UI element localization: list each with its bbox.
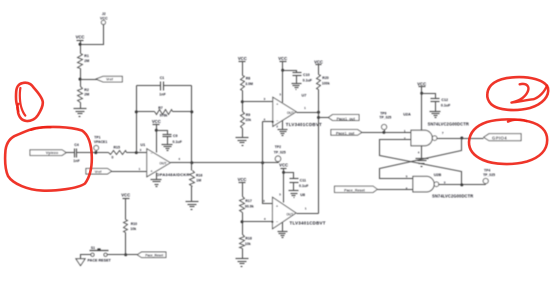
wire U7 output bbox=[297, 112, 319, 114]
svg-text:C9: C9 bbox=[173, 134, 178, 138]
svg-text:7: 7 bbox=[442, 131, 444, 135]
ground (C12) bbox=[430, 111, 441, 113]
wire signal to comparator inputs bbox=[263, 122, 273, 204]
feedback right leg bbox=[191, 86, 193, 163]
wire R9 to ground bbox=[242, 129, 244, 138]
svg-text:4: 4 bbox=[418, 150, 420, 154]
svg-text:2M: 2M bbox=[84, 92, 89, 96]
svg-text:1nF: 1nF bbox=[73, 159, 80, 163]
svg-text:R1: R1 bbox=[84, 54, 89, 58]
svg-text:Pace1_out: Pace1_out bbox=[337, 117, 356, 121]
svg-text:3: 3 bbox=[140, 148, 142, 152]
svg-text:U2B: U2B bbox=[434, 173, 442, 177]
chassis ground (switch) bbox=[76, 259, 85, 266]
svg-text:R2: R2 bbox=[84, 88, 89, 92]
svg-text:3: 3 bbox=[444, 180, 446, 184]
svg-text:VCC: VCC bbox=[314, 59, 323, 64]
svg-text:VCC: VCC bbox=[238, 56, 247, 61]
capacitor C4 1nF bbox=[74, 149, 76, 158]
svg-text:−: − bbox=[150, 152, 152, 156]
wire R8 to R9 bbox=[242, 91, 244, 112]
svg-text:R18: R18 bbox=[245, 237, 251, 241]
svg-text:−: − bbox=[276, 119, 278, 123]
net flag Pace1_out (output) bbox=[319, 117, 329, 119]
svg-text:TLV3401CDBVT: TLV3401CDBVT bbox=[286, 122, 322, 127]
wire R10 to reset node bbox=[125, 233, 127, 255]
svg-text:1: 1 bbox=[305, 206, 307, 210]
svg-text:0.1uF: 0.1uF bbox=[441, 103, 451, 107]
net flag Vref to U1 +input bbox=[86, 168, 112, 174]
svg-text:TP_025: TP_025 bbox=[274, 150, 286, 154]
svg-text:OUT: OUT bbox=[287, 111, 294, 115]
svg-text:TP4: TP4 bbox=[484, 168, 490, 172]
feedback network left leg bbox=[136, 86, 138, 153]
svg-text:0.1uF: 0.1uF bbox=[303, 78, 313, 82]
resistor R2 2M bbox=[78, 87, 83, 103]
ground (C10) bbox=[292, 83, 302, 85]
wire R1 to R2 bbox=[80, 69, 82, 87]
ground (C9) bbox=[162, 144, 173, 146]
ground (U2) bbox=[416, 158, 429, 160]
resistor R18 10k bbox=[240, 235, 245, 249]
svg-text:U2A: U2A bbox=[403, 113, 411, 117]
wire U2B output to TP4 bbox=[439, 184, 486, 186]
svg-text:1: 1 bbox=[304, 106, 306, 110]
wire divider to U7 +input bbox=[243, 101, 273, 103]
svg-text:0.1uF: 0.1uF bbox=[299, 184, 309, 188]
svg-text:SN74LVC2G00DCTR: SN74LVC2G00DCTR bbox=[428, 122, 469, 127]
node junction VCC/J2 bbox=[79, 43, 82, 46]
svg-text:0.1uF: 0.1uF bbox=[173, 140, 183, 144]
U2 ground stub bbox=[421, 146, 423, 159]
svg-text:VCC: VCC bbox=[76, 34, 85, 39]
net flag Pace_Reset (from switch) bbox=[137, 252, 166, 258]
svg-text:4: 4 bbox=[264, 217, 266, 221]
svg-text:2: 2 bbox=[276, 124, 278, 128]
svg-text:Vpiezo: Vpiezo bbox=[46, 150, 59, 155]
svg-text:TP_025: TP_025 bbox=[483, 173, 495, 177]
wire R18 to ground bbox=[242, 249, 244, 259]
wire R15 to U1 inverting input bbox=[127, 152, 147, 154]
latch feedback U2B out to U2A in2 bbox=[380, 140, 462, 185]
wire R20 to output node, wired-OR vertical bbox=[318, 90, 320, 214]
red annotation big circle (around Vpiezo) bbox=[5, 127, 92, 191]
svg-text:1: 1 bbox=[139, 167, 141, 171]
svg-text:VCC: VCC bbox=[279, 163, 288, 168]
svg-text:GPIO4: GPIO4 bbox=[492, 136, 507, 141]
node Vref divider tap bbox=[79, 78, 82, 81]
capacitor C11 0.1uF bypass bbox=[284, 173, 294, 179]
svg-text:90.9k: 90.9k bbox=[245, 204, 254, 208]
U8 V- ground bbox=[282, 223, 284, 232]
resistor R1 2M bbox=[78, 54, 83, 69]
svg-text:R20: R20 bbox=[322, 76, 328, 80]
svg-text:R8: R8 bbox=[246, 77, 251, 81]
svg-text:5: 5 bbox=[279, 192, 281, 196]
svg-text:SN74LVC2G00DCTR: SN74LVC2G00DCTR bbox=[432, 194, 473, 199]
latch feedback U2A out to U2B in5 bbox=[380, 139, 462, 179]
capacitor C10 0.1uF bypass bbox=[283, 71, 297, 73]
svg-text:2M: 2M bbox=[84, 59, 89, 63]
svg-text:VCC: VCC bbox=[152, 119, 161, 124]
svg-text:10k: 10k bbox=[130, 227, 136, 231]
svg-text:4: 4 bbox=[178, 157, 180, 161]
svg-text:OUT: OUT bbox=[286, 212, 293, 216]
resistor R16 1M load bbox=[191, 163, 193, 171]
ground (R16) bbox=[186, 201, 199, 203]
svg-text:R7: R7 bbox=[158, 106, 163, 110]
svg-text:PACE RESET: PACE RESET bbox=[88, 259, 112, 263]
svg-text:+: + bbox=[276, 102, 278, 106]
net flag Vref (divider output) bbox=[96, 76, 122, 82]
svg-text:U1: U1 bbox=[140, 143, 145, 147]
svg-text:Pace1_out: Pace1_out bbox=[336, 132, 355, 136]
net flag Pace1_out (to latch) bbox=[331, 130, 362, 136]
wire divider to U8 -input bbox=[243, 221, 273, 223]
svg-text:TP_025: TP_025 bbox=[379, 115, 391, 119]
red annotation oval with handwritten 2 (top-right) bbox=[487, 77, 548, 110]
U1 V- to ground bbox=[156, 173, 158, 180]
net flag Pace_Reset (to latch) bbox=[335, 186, 378, 192]
svg-text:U8: U8 bbox=[300, 193, 305, 197]
svg-text:U7: U7 bbox=[302, 93, 307, 97]
svg-text:VCC: VCC bbox=[238, 177, 247, 182]
capacitor C9 0.1uF bypass bbox=[157, 131, 168, 135]
svg-text:3: 3 bbox=[264, 97, 266, 101]
svg-text:+: + bbox=[276, 204, 278, 208]
svg-text:10k: 10k bbox=[245, 242, 251, 246]
wire Pace_Reset to U2B pin6 bbox=[378, 189, 413, 191]
wire switch left to chassis ground bbox=[81, 255, 91, 259]
U7 V- ground bbox=[282, 121, 284, 130]
svg-text:VPACE1: VPACE1 bbox=[94, 140, 107, 144]
svg-text:VCC: VCC bbox=[278, 56, 287, 61]
wire R17 to R18 bbox=[242, 213, 244, 235]
ground (R18) bbox=[236, 258, 249, 260]
svg-text:100k: 100k bbox=[322, 82, 330, 86]
svg-text:1M: 1M bbox=[196, 179, 201, 183]
svg-text:1nF: 1nF bbox=[159, 93, 166, 97]
ground (C11) bbox=[289, 190, 299, 192]
wire Vref to +input bbox=[112, 171, 147, 173]
capacitor C1 1nF bbox=[160, 82, 162, 91]
svg-text:R16: R16 bbox=[196, 173, 202, 177]
svg-text:C11: C11 bbox=[300, 179, 306, 183]
svg-text:C12: C12 bbox=[441, 98, 448, 102]
wire U1 output bbox=[171, 162, 279, 164]
resistor R10 10k bbox=[124, 220, 128, 233]
svg-text:J2: J2 bbox=[102, 12, 106, 16]
ground (R2) bbox=[74, 108, 87, 110]
svg-text:TP1: TP1 bbox=[94, 136, 100, 140]
net flag Vpiezo (input) bbox=[30, 150, 66, 156]
svg-text:3: 3 bbox=[263, 199, 265, 203]
comparator U7 TLV3401CDBVT bbox=[273, 97, 296, 126]
svg-text:Pace_Reset: Pace_Reset bbox=[145, 254, 164, 258]
svg-text:−: − bbox=[276, 220, 278, 224]
svg-text:5: 5 bbox=[279, 93, 281, 97]
svg-text:TLV3401CDBVT: TLV3401CDBVT bbox=[290, 221, 326, 226]
wire U2A output to GPIO4 bbox=[437, 138, 484, 140]
svg-text:Pace_Reset: Pace_Reset bbox=[344, 188, 365, 192]
svg-text:10k: 10k bbox=[245, 118, 251, 122]
wire switch to Pace_Reset flag bbox=[108, 254, 138, 256]
resistor R8 1.0M bbox=[241, 76, 245, 91]
red annotation oval around GPIO4 bbox=[469, 119, 547, 164]
wire C4 to R15 bbox=[77, 152, 109, 154]
svg-text:Vref: Vref bbox=[95, 170, 103, 174]
svg-text:+: + bbox=[150, 169, 152, 173]
resistor R15 0 bbox=[109, 151, 127, 155]
svg-text:VCC: VCC bbox=[417, 81, 426, 86]
svg-text:OUT: OUT bbox=[159, 162, 167, 166]
svg-text:S1: S1 bbox=[91, 246, 95, 250]
svg-text:VCC: VCC bbox=[121, 193, 130, 198]
capacitor C12 0.1uF bypass bbox=[422, 94, 436, 99]
resistor R7 976k feedback bbox=[137, 111, 155, 113]
wire Vpiezo to C4 bbox=[67, 152, 75, 154]
svg-text:C10: C10 bbox=[303, 73, 310, 77]
net flag GPIO4 bbox=[484, 134, 521, 141]
svg-text:R15: R15 bbox=[114, 146, 120, 150]
svg-text:Vref: Vref bbox=[106, 78, 114, 82]
svg-text:C1: C1 bbox=[160, 76, 165, 80]
svg-text:3.0M: 3.0M bbox=[245, 82, 253, 86]
svg-text:R9: R9 bbox=[246, 113, 251, 117]
resistor R17 90.9k bbox=[240, 197, 245, 213]
feedback top branch with C1 bbox=[137, 85, 161, 87]
wire U8 output wired-OR bbox=[297, 213, 319, 215]
svg-text:0: 0 bbox=[112, 156, 114, 160]
svg-text:976k: 976k bbox=[160, 113, 168, 117]
svg-text:OPA348AIDCKR: OPA348AIDCKR bbox=[156, 172, 189, 177]
red annotation small circle (top-left) bbox=[16, 83, 43, 121]
wire Pace1_out to U2A pin1 bbox=[362, 132, 411, 134]
wire J2 to VCC rail bbox=[81, 25, 104, 45]
resistor R9 10k bbox=[241, 112, 245, 129]
comparator U8 TLV3401CDBVT bbox=[273, 197, 297, 229]
wire R2 to ground bbox=[80, 103, 82, 109]
svg-text:R10: R10 bbox=[131, 222, 137, 226]
resistor R20 100k pullup bbox=[317, 75, 321, 90]
svg-text:R17: R17 bbox=[245, 199, 251, 203]
svg-text:C4: C4 bbox=[74, 143, 79, 147]
ground (R9) bbox=[236, 137, 249, 139]
svg-text:TP2: TP2 bbox=[275, 145, 281, 149]
